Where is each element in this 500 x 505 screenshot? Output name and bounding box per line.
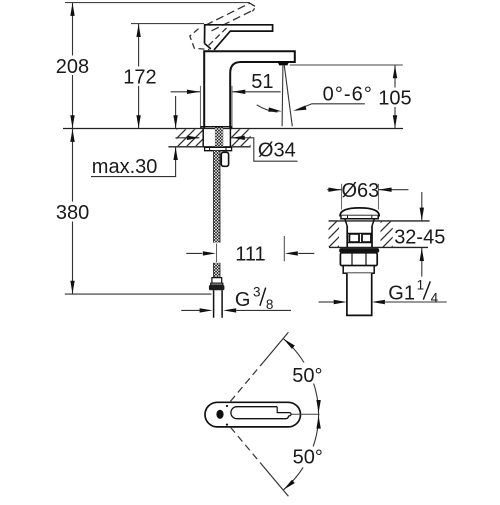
50° arc lower [283, 414, 318, 490]
arrow 380 bottom [70, 281, 74, 294]
drain cap rim [341, 216, 378, 219]
svg-text:380: 380 [56, 202, 89, 224]
mounting nut under deck [205, 147, 232, 150]
svg-text:172: 172 [123, 67, 156, 89]
svg-text:0°-6°: 0°-6° [323, 83, 373, 105]
50° arc upper [283, 339, 318, 415]
arrow 105 top [393, 65, 397, 78]
380 bottom reference line [65, 293, 212, 295]
text 50° upper [292, 363, 330, 384]
centerline [292, 413, 320, 415]
top view marker dots [226, 405, 228, 407]
svg-text:32-45: 32-45 [394, 226, 445, 248]
drain deck hatching [329, 222, 340, 247]
extension line 172 reference (lever top) [131, 23, 204, 25]
lever white fill [205, 25, 273, 50]
svg-text:111: 111 [235, 244, 265, 266]
svg-text:50°: 50° [293, 446, 323, 468]
drain cap dome [340, 208, 379, 216]
svg-text:4: 4 [431, 290, 439, 305]
hose ferrule [212, 278, 222, 284]
text 380 [55, 202, 91, 222]
svg-text:Ø63: Ø63 [342, 180, 380, 202]
32-45 dimension lines [421, 192, 423, 221]
extension lines for 51 [199, 86, 201, 127]
faucet deck hatching right [231, 129, 251, 146]
drain deck bottom line [329, 246, 428, 248]
mounting shank through deck [202, 129, 204, 147]
hose hex nut [209, 285, 225, 290]
svg-text:208: 208 [56, 56, 89, 78]
svg-text:1: 1 [417, 278, 425, 293]
aerator outlet [277, 61, 289, 65]
svg-text:max.30: max.30 [92, 156, 158, 178]
mounting plane line [63, 128, 403, 130]
drain tailpipe [347, 273, 372, 315]
faucet body white fill [204, 51, 295, 128]
dimension 51 left tail [171, 91, 200, 93]
drain body windows [349, 234, 359, 242]
extension line top (208 reference, raised lever height) [65, 2, 250, 4]
G3/8 dimension arrows [181, 309, 200, 311]
arrow 105 bottom [393, 115, 397, 128]
svg-text:105: 105 [378, 88, 411, 110]
drain neck taper [345, 219, 375, 226]
text 105 [377, 88, 413, 108]
water stream left line [281, 66, 284, 127]
svg-text:G1: G1 [388, 283, 415, 305]
flexible hose upper [213, 151, 220, 243]
threaded rod [215, 128, 223, 147]
svg-text:8: 8 [266, 297, 274, 312]
Ø63 dimension [327, 189, 341, 191]
text 172 [122, 67, 156, 87]
dimension 208 line [72, 3, 74, 129]
drain body through deck [347, 226, 372, 247]
svg-text:3: 3 [253, 285, 261, 300]
arc arrowheads [282, 337, 295, 349]
extension line 105 (outlet level) [290, 64, 403, 66]
lever neck chamfer [205, 44, 211, 49]
faucet body outline [204, 51, 295, 128]
arrow 172 top [136, 24, 140, 37]
flexible hose lower [213, 263, 220, 278]
drain deck top line [329, 220, 430, 222]
arrow 380 top [70, 129, 74, 142]
drain washer [343, 266, 374, 274]
111 right extension line [283, 236, 285, 261]
max.30 underline [91, 176, 176, 178]
dimension 51 right tail [232, 91, 280, 93]
arrow max30 down [173, 115, 177, 128]
G3/8 connection tube [214, 290, 223, 318]
faucet deck bottom line [168, 146, 250, 148]
dashed swing ray upper [231, 362, 264, 401]
dimension 111 arrows [186, 252, 202, 254]
arrow 208 bottom [70, 115, 74, 128]
water stream right line [284, 66, 292, 127]
hose break centerline [216, 244, 218, 263]
0-6 degree leader right [296, 104, 365, 110]
arrow 208 top [70, 3, 74, 16]
lever outline [205, 25, 273, 50]
dimension 105 line [394, 65, 396, 129]
svg-text:51: 51 [251, 71, 273, 93]
dashed raised handle base outline [190, 29, 210, 50]
dashed raised lever neck edge [207, 28, 227, 48]
dimension 172 line [138, 24, 140, 129]
faucet base plate [201, 127, 232, 129]
drain body window band [347, 232, 372, 234]
dashed swing ray lower [231, 427, 264, 466]
svg-text:G: G [235, 289, 251, 311]
arrow max30 up [173, 147, 177, 160]
top view outer outline [205, 402, 301, 427]
text 50° lower [292, 447, 330, 468]
dashed raised lever lower edge [212, 10, 254, 31]
max.30 lower leader line [175, 147, 177, 177]
max.30 upper leader line [175, 96, 177, 128]
dashed raised lever end cap [250, 3, 256, 11]
svg-text:50°: 50° [292, 365, 322, 387]
arrow Ø34 right + leader to label [232, 138, 298, 161]
top view lever tip bar [277, 407, 291, 416]
drain seal washer [339, 248, 379, 253]
top view spout dot [216, 410, 223, 419]
svg-text:Ø34: Ø34 [258, 140, 296, 162]
text 208 [55, 56, 91, 76]
dashed raised lever upper edge [206, 3, 250, 25]
top view inner slot [231, 407, 289, 419]
G1 1/4 dimension arrows [319, 301, 334, 303]
arrow 172 bottom [136, 115, 140, 128]
dimension 380 line [72, 129, 74, 295]
0-6 degree angle arc left [257, 105, 278, 112]
faucet deck hatching left [177, 129, 204, 146]
arrow 51 left [187, 90, 200, 94]
arrow Ø34 left [175, 137, 199, 139]
drain hex nut [340, 253, 377, 266]
arrow 51 right [232, 90, 245, 94]
Ø63 extension lines [341, 184, 343, 210]
hose side fitting [221, 152, 228, 166]
